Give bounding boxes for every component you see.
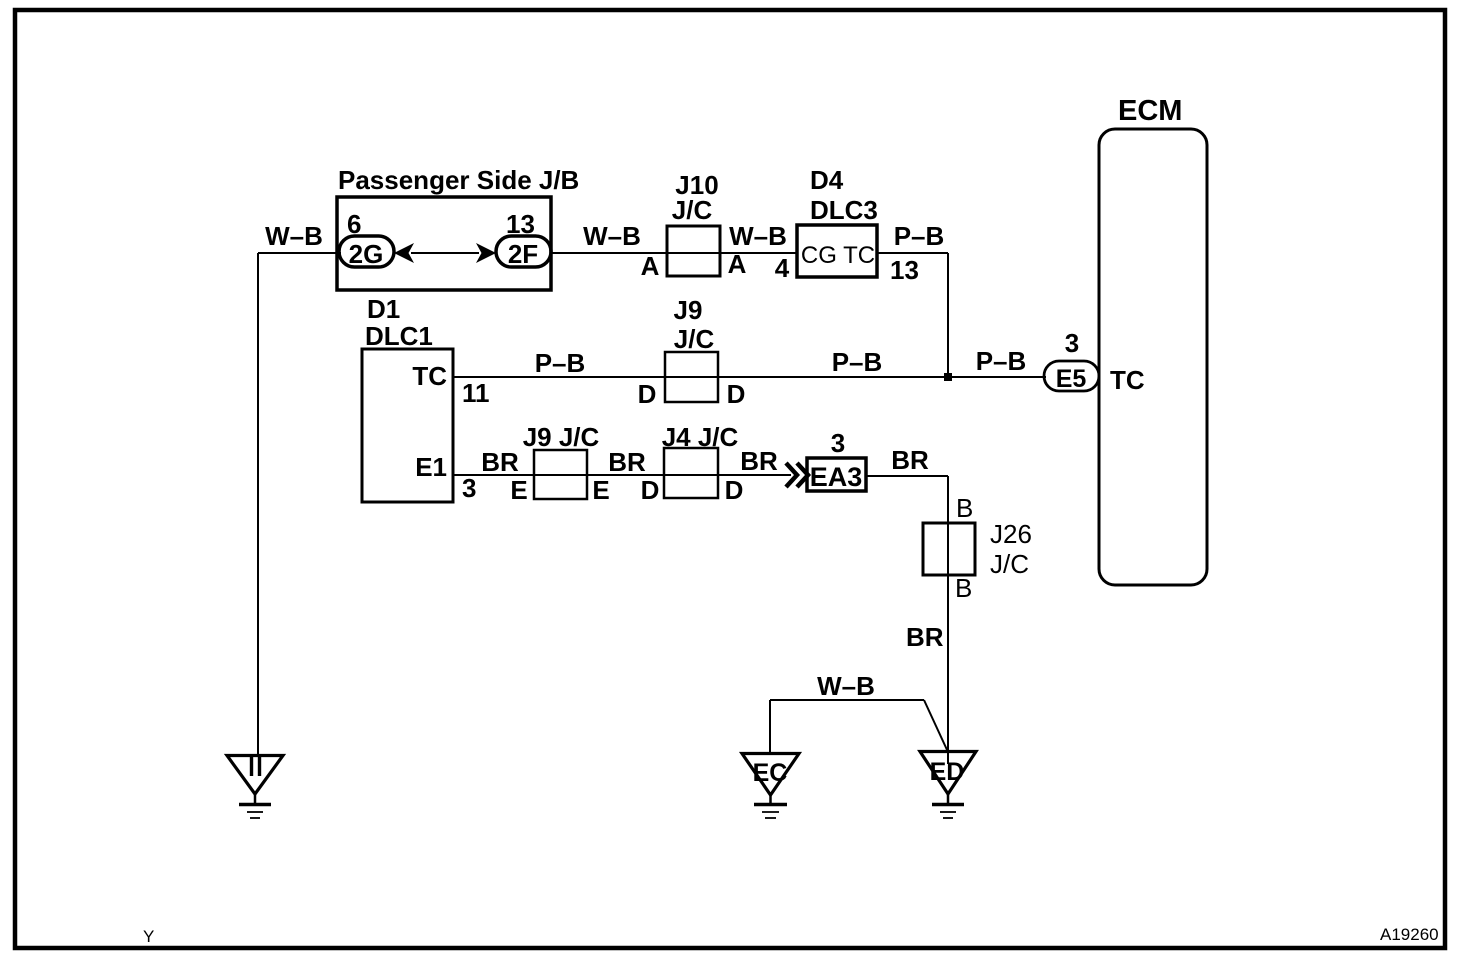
- svg-text:J4 J/C: J4 J/C: [662, 422, 739, 452]
- svg-text:TC: TC: [1110, 365, 1145, 395]
- svg-text:BR: BR: [906, 622, 944, 652]
- svg-text:Y: Y: [143, 927, 154, 946]
- svg-text:DLC1: DLC1: [365, 321, 433, 351]
- svg-text:P–B: P–B: [894, 221, 945, 251]
- svg-text:B: B: [956, 493, 973, 523]
- svg-text:Passenger Side J/B: Passenger Side J/B: [338, 165, 579, 195]
- svg-text:P–B: P–B: [832, 347, 883, 377]
- svg-text:3: 3: [831, 428, 845, 458]
- svg-text:BR: BR: [608, 447, 646, 477]
- svg-text:6: 6: [347, 209, 361, 239]
- svg-text:J9 J/C: J9 J/C: [523, 422, 600, 452]
- svg-text:CG TC: CG TC: [801, 242, 875, 269]
- svg-text:D: D: [638, 379, 657, 409]
- svg-text:EC: EC: [753, 759, 788, 787]
- svg-text:W–B: W–B: [729, 221, 787, 251]
- svg-text:A: A: [728, 249, 747, 279]
- svg-text:J9: J9: [674, 295, 703, 325]
- svg-text:ED: ED: [930, 758, 965, 786]
- svg-text:13: 13: [506, 209, 535, 239]
- svg-text:E5: E5: [1056, 365, 1087, 393]
- svg-text:W–B: W–B: [583, 221, 641, 251]
- svg-text:3: 3: [462, 473, 476, 503]
- svg-text:W–B: W–B: [817, 671, 875, 701]
- svg-text:2F: 2F: [508, 239, 538, 269]
- svg-text:E: E: [510, 475, 527, 505]
- svg-text:J/C: J/C: [990, 549, 1029, 579]
- svg-text:BR: BR: [740, 446, 778, 476]
- svg-text:D: D: [641, 475, 660, 505]
- svg-text:D: D: [727, 379, 746, 409]
- svg-text:J/C: J/C: [674, 324, 715, 354]
- svg-text:P–B: P–B: [535, 348, 586, 378]
- svg-text:A19260: A19260: [1380, 925, 1439, 944]
- svg-text:E: E: [592, 475, 609, 505]
- svg-text:P–B: P–B: [976, 346, 1027, 376]
- svg-text:2G: 2G: [349, 239, 384, 269]
- svg-text:B: B: [955, 573, 972, 603]
- svg-text:DLC3: DLC3: [810, 195, 878, 225]
- svg-text:13: 13: [890, 255, 919, 285]
- svg-text:BR: BR: [891, 445, 929, 475]
- svg-text:D4: D4: [810, 165, 844, 195]
- svg-text:E1: E1: [415, 452, 447, 482]
- svg-text:BR: BR: [481, 447, 519, 477]
- svg-text:EA3: EA3: [810, 462, 863, 492]
- svg-text:J26: J26: [990, 519, 1032, 549]
- svg-text:J/C: J/C: [672, 195, 713, 225]
- svg-text:4: 4: [775, 253, 790, 283]
- svg-text:ECM: ECM: [1118, 95, 1182, 127]
- svg-text:W–B: W–B: [265, 221, 323, 251]
- svg-text:D1: D1: [367, 294, 400, 324]
- svg-text:D: D: [725, 475, 744, 505]
- svg-text:A: A: [641, 251, 660, 281]
- svg-text:TC: TC: [412, 361, 447, 391]
- svg-text:11: 11: [462, 378, 490, 408]
- svg-text:3: 3: [1065, 328, 1079, 358]
